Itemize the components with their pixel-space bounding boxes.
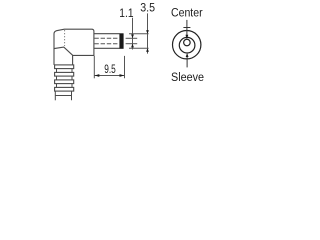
strain relief rib 4 [55,87,74,91]
dim 9.5 left arrowhead [95,74,100,77]
dim 3.5 lower arrowhead [146,48,149,52]
cable tail left edge [54,91,56,100]
svg-text:Sleeve: Sleeve [171,70,204,84]
dim 9.5 dimension line [94,75,124,77]
sleeve leader arrowhead [186,53,189,57]
cable tail right edge [71,91,73,100]
barrel hole hidden line top (dashed) [94,37,119,39]
center leader line [186,20,188,35]
strain relief rib 3 [55,80,74,84]
center leader tick [183,27,190,29]
strain relief rib 2 [55,72,74,76]
cable tail horizontal line [55,95,71,97]
plug body outline (side view) [54,29,94,55]
barrel top edge [94,33,120,35]
dim 1.1 lower arrowhead [131,44,134,48]
svg-text:Center: Center [171,6,203,20]
barrel bottom edge [94,47,120,49]
strain relief waist right verticals [71,69,73,88]
dim 1.1 upper arrowhead [131,35,134,39]
front view outer circle (sleeve) [173,31,201,59]
center leader arrowhead [186,35,189,40]
strain relief rib 1 [55,65,74,69]
dim 3.5 tick bottom [129,47,149,49]
sleeve leader line [186,57,188,68]
cable boot right edge [72,55,74,65]
svg-text:9.5: 9.5 [104,62,116,76]
cable boot left edge [53,49,55,65]
dim 3.5 tick top [129,33,149,35]
svg-text:1.1: 1.1 [119,6,133,20]
barrel hole hidden line bottom (dashed) [94,43,119,45]
front view middle circle [179,37,195,53]
dim 9.5 right arrowhead [120,74,125,77]
svg-text:3.5: 3.5 [140,1,155,15]
dim 1.1 dimension line [132,18,134,50]
dim 9.5 right extension line [124,56,126,78]
body hidden line (dotted) [64,30,66,46]
dim 9.5 left extension line [93,56,95,78]
strain relief waist left verticals [56,69,58,88]
dim 1.1 tick top [126,37,138,39]
front view center hole circle [184,39,191,46]
barrel tip end cap (filled) [119,33,123,49]
dim 1.1 tick bottom [126,43,138,45]
dim 3.5 upper arrowhead [146,30,149,34]
dim 3.5 dimension line [147,13,149,53]
